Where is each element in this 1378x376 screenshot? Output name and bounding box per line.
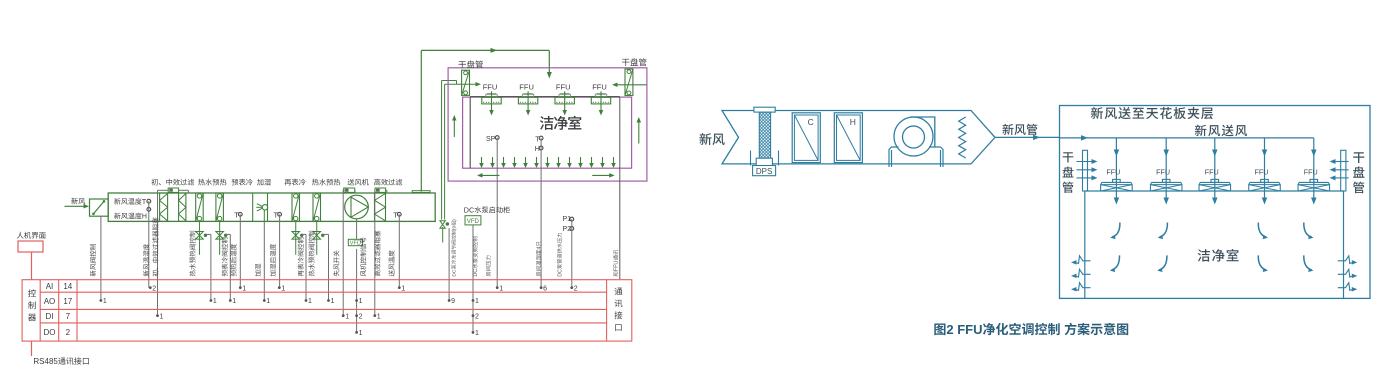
svg-text:1: 1 [401, 285, 405, 292]
svg-text:DC: DC [464, 206, 474, 215]
svg-text:2: 2 [475, 313, 479, 320]
svg-text:FFU: FFU [614, 261, 620, 272]
svg-text:2: 2 [574, 285, 578, 292]
svg-text:1: 1 [359, 330, 363, 337]
svg-text:RS485: RS485 [33, 357, 58, 366]
svg-text:DPS: DPS [756, 167, 772, 176]
svg-text:DC: DC [473, 269, 479, 277]
svg-text:4: 4 [536, 247, 542, 250]
svg-text:9: 9 [451, 298, 455, 305]
svg-text:7: 7 [66, 312, 71, 321]
svg-text:1: 1 [475, 330, 479, 337]
svg-text:1: 1 [266, 298, 270, 305]
svg-text:1: 1 [242, 285, 246, 292]
svg-text:AI: AI [46, 282, 54, 291]
svg-text:SP: SP [486, 136, 496, 143]
svg-text:1: 1 [345, 313, 349, 320]
svg-text:FFU: FFU [1254, 168, 1268, 177]
svg-text:1: 1 [359, 298, 363, 305]
svg-text:1: 1 [213, 298, 217, 305]
svg-text:DC: DC [557, 269, 563, 277]
svg-text:FFU: FFU [556, 82, 571, 91]
svg-text:T: T [142, 199, 147, 206]
svg-text:FFU: FFU [1156, 168, 1170, 177]
svg-text:DC: DC [452, 269, 458, 277]
svg-text:1: 1 [499, 285, 503, 292]
svg-text:(9: (9 [452, 226, 458, 231]
svg-text:2: 2 [66, 328, 71, 337]
svg-text:C: C [808, 117, 814, 127]
svg-text:VFD: VFD [350, 241, 361, 247]
svg-text:6: 6 [543, 285, 547, 292]
svg-text:FFU: FFU [483, 82, 498, 91]
svg-text:FFU: FFU [1304, 168, 1318, 177]
svg-text:H: H [850, 117, 856, 127]
svg-text:17: 17 [63, 297, 72, 306]
svg-text:2: 2 [152, 285, 156, 292]
svg-text:1: 1 [377, 313, 381, 320]
svg-text:1: 1 [232, 298, 236, 305]
svg-text:DO: DO [44, 328, 56, 337]
svg-text:AO: AO [44, 297, 56, 306]
svg-text:2 FFU: 2 FFU [946, 322, 982, 337]
svg-text:1: 1 [475, 298, 479, 305]
svg-text:14: 14 [63, 282, 72, 291]
svg-text:1: 1 [281, 285, 285, 292]
svg-text:1: 1 [308, 298, 312, 305]
svg-text:FFU: FFU [519, 82, 534, 91]
svg-text:VFD: VFD [467, 219, 480, 225]
svg-text:1: 1 [331, 298, 335, 305]
svg-text:DI: DI [46, 312, 54, 321]
svg-text:FFU: FFU [592, 82, 607, 91]
svg-text:FFU: FFU [1106, 168, 1120, 177]
svg-text:1: 1 [103, 298, 107, 305]
svg-text:2: 2 [359, 313, 363, 320]
svg-text:H: H [142, 214, 147, 221]
svg-text:1: 1 [160, 313, 164, 320]
svg-text:FFU: FFU [1205, 168, 1219, 177]
